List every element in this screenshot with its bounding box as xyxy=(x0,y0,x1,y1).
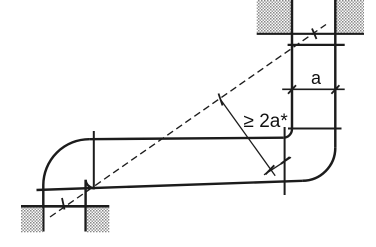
elbow joint line left of right bend xyxy=(284,127,286,195)
left elbow outer arc xyxy=(43,139,89,185)
svg-text:a: a xyxy=(311,68,322,88)
horizontal duct top line xyxy=(89,138,283,140)
dimension leader 2a xyxy=(221,100,276,176)
lower duct left line xyxy=(42,185,44,232)
floor hatch right xyxy=(87,208,110,233)
horizontal duct bottom line xyxy=(37,181,303,190)
dimension slash on joint line xyxy=(281,157,290,164)
upper duct right line xyxy=(334,0,336,148)
right elbow outer arc xyxy=(302,148,335,181)
dimension tick left xyxy=(288,85,296,94)
wall hatch top-right xyxy=(336,0,364,33)
floor line xyxy=(21,205,109,208)
dimension slash on leader xyxy=(266,165,275,174)
upper duct left line xyxy=(291,0,293,129)
dimension tick right xyxy=(331,85,339,94)
dimension line a xyxy=(282,88,345,90)
left elbow inner arc xyxy=(86,180,95,188)
centreline tick top xyxy=(312,29,317,40)
elbow joint line right of left bend xyxy=(93,131,95,190)
centreline tick middle xyxy=(219,94,223,106)
ceiling underside line xyxy=(257,33,364,35)
right elbow inner arc xyxy=(283,129,292,138)
centreline tick bottom xyxy=(62,198,65,210)
wall hatch top-left xyxy=(257,0,291,33)
floor hatch left xyxy=(21,208,43,233)
elbow joint line above right bend xyxy=(288,128,342,130)
lower duct right line xyxy=(84,180,86,232)
duct joint line below ceiling xyxy=(288,44,345,46)
svg-text:≥ 2a*: ≥ 2a* xyxy=(244,111,289,132)
dimension cross line xyxy=(264,157,291,175)
dashed centreline xyxy=(50,25,326,218)
